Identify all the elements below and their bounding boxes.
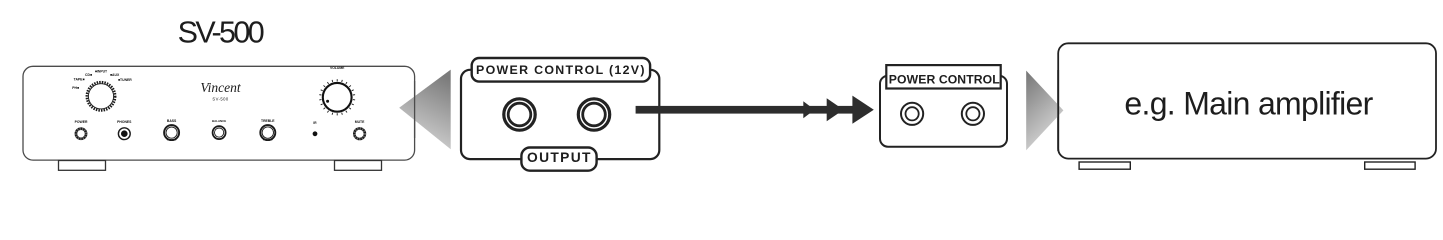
main amplifier right foot	[1365, 162, 1415, 169]
svg-text:PH■: PH■	[72, 86, 79, 90]
signal arrow chevron 2	[827, 98, 844, 121]
knob BALANCE	[212, 119, 226, 139]
svg-text:SV-500: SV-500	[212, 97, 228, 102]
input jack left	[901, 103, 923, 125]
knob POWER	[75, 120, 88, 139]
svg-text:OUTPUT: OUTPUT	[527, 150, 592, 165]
knob TREBLE	[260, 119, 275, 140]
amplifier right edge over triangle	[414, 81, 416, 138]
gray triangle arrow pointing left	[399, 70, 451, 150]
input selector labels	[72, 70, 132, 90]
svg-text:CD■: CD■	[85, 73, 92, 77]
svg-text:■TUNER: ■TUNER	[118, 78, 132, 82]
input selector knob	[87, 82, 115, 110]
output jack left	[504, 99, 535, 130]
knob BASS	[164, 119, 179, 140]
amplifier left foot	[59, 161, 106, 171]
svg-text:SV-500: SV-500	[178, 16, 264, 50]
amplifier SV-500 front panel	[23, 66, 415, 160]
svg-text:BALANCE: BALANCE	[212, 119, 226, 123]
input jack right	[962, 103, 984, 125]
svg-text:e.g. Main amplifier: e.g. Main amplifier	[1124, 86, 1373, 122]
svg-text:Vincent: Vincent	[200, 80, 241, 95]
IR sensor dot	[313, 121, 318, 136]
knob MUTE	[354, 120, 365, 139]
label POWER CONTROL	[886, 65, 1000, 88]
svg-text:MUTE: MUTE	[355, 120, 365, 124]
signal arrow head	[852, 96, 873, 124]
svg-text:PHONES: PHONES	[117, 120, 132, 124]
main amplifier left foot	[1079, 162, 1130, 169]
svg-text:BASS: BASS	[167, 119, 177, 123]
svg-text:POWER: POWER	[75, 120, 88, 124]
volume knob	[319, 66, 355, 116]
signal arrow shaft	[636, 106, 857, 114]
svg-text:POWER CONTROL (12V): POWER CONTROL (12V)	[476, 63, 646, 77]
amplifier right foot	[335, 161, 382, 171]
output jack right	[578, 99, 609, 130]
label OUTPUT	[521, 148, 596, 171]
svg-text:■INPUT: ■INPUT	[95, 70, 108, 74]
svg-text:TAPE■: TAPE■	[74, 77, 85, 81]
power control 12V box	[461, 70, 659, 159]
svg-text:TREBLE: TREBLE	[261, 119, 275, 123]
svg-text:VOLUME: VOLUME	[330, 66, 345, 70]
label POWER CONTROL (12V)	[472, 58, 650, 82]
gray triangle arrow pointing right	[1026, 71, 1063, 151]
main amplifier box	[1058, 43, 1436, 158]
knob PHONES	[117, 120, 132, 140]
svg-text:■AUX: ■AUX	[110, 73, 120, 77]
power control small box	[880, 76, 1007, 147]
main amplifier left edge over triangle	[1057, 70, 1059, 151]
signal arrow chevron 1	[803, 101, 814, 118]
svg-text:POWER CONTROL: POWER CONTROL	[889, 73, 1000, 87]
